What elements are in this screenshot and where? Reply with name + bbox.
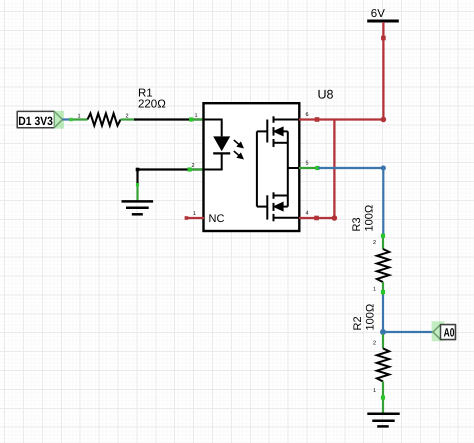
svg-text:2: 2 — [126, 114, 129, 120]
svg-text:2: 2 — [192, 163, 195, 169]
wire R2 to ground (green) — [382, 396, 384, 413]
node at U8 pin 2 — [188, 167, 192, 171]
svg-text:D1 3V3: D1 3V3 — [18, 114, 53, 128]
wire from 6V down to pin6 net — [381, 22, 386, 120]
junction node (blue) — [380, 329, 386, 335]
resistor R3 — [351, 205, 389, 296]
svg-text:R2: R2 — [352, 316, 364, 330]
svg-text:220Ω: 220Ω — [138, 99, 166, 111]
pin5 internal wire — [288, 167, 299, 169]
svg-text:100Ω: 100Ω — [363, 205, 375, 232]
MOSFET Q-top inside U8 — [257, 116, 299, 168]
optocoupler U8 box — [204, 103, 300, 231]
U8 pin 2 lead — [189, 168, 204, 170]
wire junction to A0 (blue) — [383, 331, 433, 333]
wire U8 pin2 to ground (black) — [136, 168, 204, 185]
svg-text:1: 1 — [78, 114, 81, 120]
node at U8 pin 1 — [189, 117, 193, 121]
green wire segment to ground — [136, 184, 138, 201]
svg-text:6: 6 — [306, 112, 309, 118]
U8 pin5 green lead — [299, 161, 320, 171]
svg-text:5: 5 — [306, 161, 309, 167]
svg-text:R3: R3 — [351, 217, 363, 231]
wire D1 to R1 (blue) — [62, 118, 71, 120]
ground (left) — [122, 201, 154, 214]
MOSFET Q-bottom inside U8 — [257, 168, 299, 221]
svg-text:2: 2 — [373, 240, 376, 246]
net label D1 3V3 — [17, 111, 64, 129]
wire pin6 to 6V net (red) — [299, 112, 386, 122]
svg-text:U8: U8 — [318, 88, 334, 102]
wire R1 to U8 pin1 (black) — [134, 118, 204, 120]
node green endpoint dot at D1 lead — [69, 118, 73, 122]
power supply 6V — [367, 8, 399, 21]
svg-text:1: 1 — [373, 388, 376, 394]
pin NC (unconnected) — [185, 211, 225, 225]
resistor R1 — [88, 88, 167, 126]
svg-text:2: 2 — [373, 340, 376, 346]
svg-text:1: 1 — [193, 211, 196, 217]
resistor R2 — [352, 304, 389, 397]
svg-text:1: 1 — [373, 286, 376, 292]
wire pin5 to R3 (blue) — [318, 165, 386, 235]
net label A0 — [432, 321, 456, 341]
U8 pin 1 lead — [189, 118, 204, 120]
svg-text:NC: NC — [209, 213, 225, 225]
gate bus wire connecting both gates — [256, 131, 258, 206]
wire green lead into R1 — [69, 118, 88, 120]
ground (bottom) — [367, 414, 399, 427]
LED light arrows — [234, 140, 243, 158]
svg-text:4: 4 — [306, 211, 309, 217]
svg-text:1: 1 — [195, 113, 198, 119]
wire R3 to junction (blue) — [382, 295, 384, 332]
LED inside U8 — [205, 120, 231, 170]
svg-text:A0: A0 — [444, 325, 455, 339]
wire pin4 to 6V net (red) — [299, 120, 337, 221]
svg-text:R1: R1 — [138, 88, 153, 100]
svg-text:6V: 6V — [371, 8, 385, 20]
svg-text:100Ω: 100Ω — [364, 304, 376, 331]
